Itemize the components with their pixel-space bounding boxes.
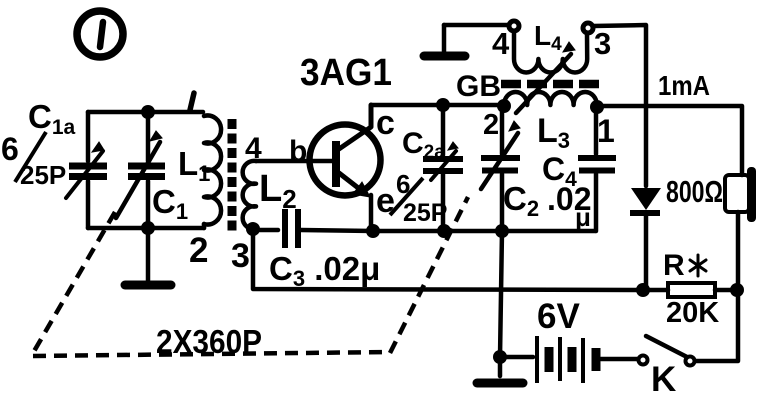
svg-text:1: 1 xyxy=(597,113,615,149)
svg-text:4: 4 xyxy=(492,26,510,61)
svg-text:C3 .02μ: C3 .02μ xyxy=(269,250,380,291)
svg-text:μ: μ xyxy=(575,202,591,232)
svg-text:25P: 25P xyxy=(403,199,447,227)
svg-text:4: 4 xyxy=(245,132,262,165)
svg-text:3: 3 xyxy=(231,237,250,275)
svg-text:1mA: 1mA xyxy=(658,70,710,101)
svg-text:20K: 20K xyxy=(666,297,719,329)
svg-text:2X360P: 2X360P xyxy=(156,323,262,360)
svg-text:25P: 25P xyxy=(20,160,66,190)
svg-text:800Ω: 800Ω xyxy=(666,174,723,209)
svg-text:b: b xyxy=(289,135,307,168)
svg-text:2: 2 xyxy=(483,109,499,141)
svg-text:2: 2 xyxy=(189,231,208,270)
svg-text:GB: GB xyxy=(456,70,501,103)
svg-text:c: c xyxy=(376,104,395,142)
svg-text:R: R xyxy=(663,249,685,282)
svg-text:K: K xyxy=(651,360,676,399)
svg-text:6: 6 xyxy=(1,131,19,167)
svg-text:6V: 6V xyxy=(537,297,580,336)
svg-text:3: 3 xyxy=(594,26,611,61)
svg-text:3AG1: 3AG1 xyxy=(300,52,392,94)
